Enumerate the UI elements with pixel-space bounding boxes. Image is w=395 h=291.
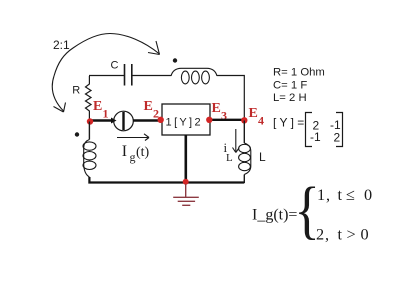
svg-text:1: 1 <box>103 107 109 121</box>
node E2 label <box>144 99 160 121</box>
[Y] matrix right bracket <box>336 113 343 147</box>
bottom rail right segment <box>185 181 244 183</box>
svg-text:I: I <box>122 143 127 160</box>
top winding polarity dot <box>173 58 177 62</box>
current source U1 arrowhead into circle <box>111 118 117 124</box>
iL label <box>224 140 234 164</box>
wire box bottom to ground junction <box>185 135 188 181</box>
inductor (top transformer winding) <box>171 68 217 84</box>
node E4 label <box>249 106 265 128</box>
svg-text:E: E <box>249 106 258 121</box>
current source U1 circle <box>114 111 134 131</box>
wire capacitor to top inductor <box>132 75 171 77</box>
capacitor C plates <box>124 64 126 86</box>
svg-text:L: L <box>226 152 233 164</box>
wire from resistor top to capacitor <box>89 75 124 77</box>
svg-text:[ Y ] =: [ Y ] = <box>273 116 304 130</box>
inductor L coil <box>239 143 251 175</box>
svg-text:E: E <box>93 99 102 114</box>
svg-text:4: 4 <box>258 114 264 128</box>
svg-text:L= 2 H: L= 2 H <box>273 92 307 104</box>
iL arrow <box>233 129 240 153</box>
[Y] matrix left bracket <box>306 113 313 147</box>
inductor (left transformer winding) <box>83 140 96 178</box>
svg-text:(t): (t) <box>136 145 150 160</box>
svg-text:2: 2 <box>334 131 341 145</box>
svg-text:E: E <box>212 101 221 116</box>
Ig(t) label <box>122 143 150 164</box>
svg-text:R= 1 Ohm: R= 1 Ohm <box>273 67 325 79</box>
wire E1 down to left winding <box>88 122 90 140</box>
resistor R zigzag <box>86 76 92 119</box>
wire current source to E2 <box>133 119 162 121</box>
two-port box U2 [Y] <box>162 104 210 135</box>
svg-text:C= 1 F: C= 1 F <box>273 80 307 92</box>
svg-text:L: L <box>259 150 266 164</box>
node E1 dot <box>87 118 93 124</box>
wire top inductor to right corner and down to E4 <box>217 76 244 121</box>
wire inductor L to bottom rail <box>243 175 245 184</box>
wire E1 to current source <box>90 119 114 121</box>
node E2 dot <box>158 117 164 123</box>
svg-text:1 [ Y ] 2: 1 [ Y ] 2 <box>166 117 201 129</box>
current source U1 bar <box>122 112 124 130</box>
ground symbol <box>173 184 199 205</box>
node E1 label <box>93 99 109 121</box>
svg-text:g: g <box>130 150 136 164</box>
coupling arrow (double-headed arc between winding dots) <box>52 34 159 113</box>
svg-text:I_g(t)=: I_g(t)= <box>252 207 297 224</box>
svg-text:C: C <box>111 60 119 72</box>
Ig(t) arrow <box>117 134 149 141</box>
svg-text:E: E <box>144 99 153 114</box>
node E4 dot <box>241 117 247 123</box>
left winding polarity dot <box>75 132 79 136</box>
svg-text:-1: -1 <box>310 130 321 144</box>
wire left winding to bottom rail <box>89 177 186 183</box>
node E3 label <box>212 101 228 123</box>
ground junction node dot <box>183 179 189 185</box>
svg-text:2:1: 2:1 <box>53 38 70 52</box>
piecewise brace <box>294 174 320 246</box>
[Y] matrix entries <box>310 118 341 145</box>
wire E4 down to inductor L <box>243 121 245 144</box>
wire E3 to E4 <box>209 119 245 121</box>
node E3 dot <box>206 117 212 123</box>
svg-text:R: R <box>72 84 80 96</box>
